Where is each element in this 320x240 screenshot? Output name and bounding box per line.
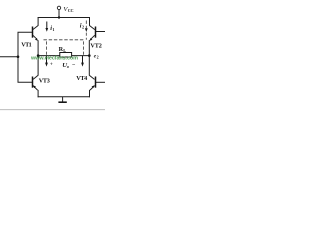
svg-text:−: − xyxy=(72,63,76,69)
transistor VT2 base bar xyxy=(95,27,97,38)
node A dot xyxy=(37,54,40,57)
wire Vcc stem xyxy=(58,10,60,18)
dashed load box top edge xyxy=(44,39,84,41)
svg-text:1: 1 xyxy=(52,27,54,32)
load current arrow left xyxy=(46,56,47,63)
wire top supply rail xyxy=(38,17,90,19)
wire VT4 base lead to right edge xyxy=(96,81,105,83)
transistor VT3 base bar xyxy=(32,77,34,88)
dashed current path i2 xyxy=(85,21,87,29)
svg-text:L: L xyxy=(63,48,66,53)
wire bottom ground rail xyxy=(38,96,90,98)
svg-text:CC: CC xyxy=(68,8,74,13)
svg-text:2: 2 xyxy=(82,25,84,30)
wire RL right segment xyxy=(72,55,90,57)
wire left base column with VT1 and VT3 base leads xyxy=(18,32,32,82)
power terminal Vcc xyxy=(57,6,60,9)
ground symbol bar xyxy=(58,101,66,103)
transistor VT4 base bar xyxy=(95,77,97,88)
VT1 emitter arrowhead xyxy=(35,38,38,41)
svg-text:o: o xyxy=(67,64,69,69)
transistor VT1 base bar xyxy=(32,27,34,38)
current arrow i1 xyxy=(46,22,47,29)
VT2 emitter arrowhead xyxy=(89,38,92,41)
svg-text:+: + xyxy=(50,61,53,67)
wire node B to VT4 collector xyxy=(89,56,94,80)
svg-text:VT3: VT3 xyxy=(39,78,50,85)
junction dot at Vcc rail xyxy=(58,16,60,18)
svg-text:VT4: VT4 xyxy=(76,75,87,82)
svg-text:www.elecfans.com: www.elecfans.com xyxy=(30,56,78,62)
svg-text:VT1: VT1 xyxy=(21,42,32,49)
page rule line xyxy=(0,109,105,111)
wire VT2 collector drop xyxy=(90,18,95,30)
wire VT3 emitter vertical xyxy=(37,90,39,97)
wire VT2 emitter vertical to node B xyxy=(88,40,90,55)
junction dot left input xyxy=(17,55,20,58)
ground stub xyxy=(62,97,64,102)
wire VT3 emitter diagonal xyxy=(33,86,38,91)
current arrow i2 head (on dashed path) xyxy=(85,28,88,32)
wire VT1 emitter diagonal xyxy=(33,35,37,39)
svg-text:VT2: VT2 xyxy=(90,43,102,50)
node B dot xyxy=(88,54,91,57)
wire VT4 emitter vertical xyxy=(89,90,91,97)
resistor RL body xyxy=(60,53,72,58)
wire VT1 emitter vertical to node A xyxy=(37,40,39,55)
VT3 emitter arrowhead (points into bar) xyxy=(33,85,36,88)
dashed load box left edge xyxy=(45,41,47,55)
wire VT4 emitter diagonal xyxy=(90,86,95,91)
svg-text:2: 2 xyxy=(97,54,99,59)
wire VT1 collector drop xyxy=(33,18,38,30)
load current arrow right xyxy=(82,56,83,63)
VT4 emitter arrowhead (points into bar) xyxy=(92,85,95,88)
wire left input xyxy=(0,56,18,58)
wire node A to VT3 collector xyxy=(33,56,38,80)
wire VT2 emitter diagonal xyxy=(91,35,95,39)
wire RL left segment xyxy=(38,55,60,57)
wire VT2 base lead to right edge xyxy=(96,31,105,33)
dashed load box right edge xyxy=(83,41,85,55)
